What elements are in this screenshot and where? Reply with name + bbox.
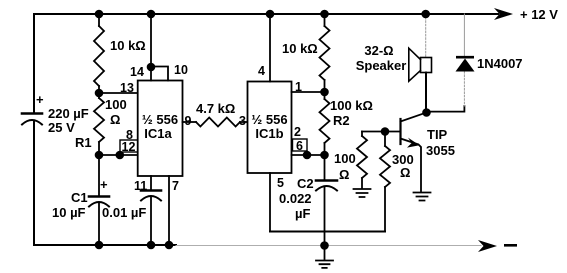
wire collector to diode [427,106,465,112]
wire pin 11 [150,176,152,190]
svg-text:+: + [100,177,108,192]
svg-text:+: + [36,92,44,107]
svg-text:11: 11 [134,179,147,193]
svg-text:10 kΩ: 10 kΩ [110,38,146,53]
resistor 300 ohm [384,132,386,147]
svg-text:10: 10 [174,63,188,77]
svg-text:TIP: TIP [427,127,448,142]
arrow negative rail [478,240,497,252]
svg-text:14: 14 [130,65,144,79]
svg-text:½ 556: ½ 556 [142,112,178,127]
svg-text:½ 556: ½ 556 [251,112,287,127]
svg-text:25 V: 25 V [48,120,75,135]
wire output bus y231 [270,231,385,233]
svg-text:12: 12 [122,140,136,154]
svg-text:13: 13 [120,81,134,95]
resistor 100 ohm (base) [361,132,363,137]
svg-text:7: 7 [172,179,179,193]
svg-text:6: 6 [296,139,303,153]
box pin 6 [293,139,308,151]
svg-text:100: 100 [334,151,356,166]
ground (below bottom rail) [316,261,333,268]
wire pin 13 [99,92,138,94]
resistor R1 100 ohm [94,98,104,142]
wire top +12V rail [34,13,498,15]
wire pin 2/6 [292,154,325,156]
wire pin13 node to resistor [98,86,100,93]
svg-text:IC1a: IC1a [144,126,172,141]
wire left vertical rail [33,14,35,245]
svg-text:Speaker: Speaker [356,58,407,73]
svg-text:Ω: Ω [339,167,349,182]
op-amp/timer IC1b (1/2 556) [248,82,292,174]
svg-text:9: 9 [185,114,192,128]
wire speaker to collector [425,73,427,113]
wire bottom rail (black part) [34,244,176,246]
op-amp/timer IC1a (1/2 556) [138,81,183,177]
wire node to C1 [98,155,100,196]
resistor R2 100 k ohm [324,92,326,99]
svg-text:220 µF: 220 µF [48,106,89,121]
svg-text:R2: R2 [333,113,350,128]
svg-text:1N4007: 1N4007 [477,56,523,71]
ground (below 100 ohm) [354,189,371,197]
capacitor 220uF 25V [22,112,42,115]
transistor Q1 TIP3055 [399,119,401,144]
wire pin 4 [269,14,271,82]
resistor 4.7 k ohm [183,121,197,123]
wire speaker top (faint) [425,14,427,58]
arrow +12V supply [494,8,513,20]
wire pin 14 [150,14,152,81]
wire pin 10 jumper [151,67,168,81]
svg-text:32-Ω: 32-Ω [364,43,393,58]
capacitor 0.01uF [141,189,161,192]
wire pin 5 [269,173,271,232]
svg-text:Ω: Ω [400,165,410,180]
svg-text:100 kΩ: 100 kΩ [330,98,373,113]
wire diode bottom (faint) [463,72,465,107]
svg-text:1: 1 [295,80,302,94]
svg-text:4: 4 [258,64,265,78]
wire diode top (faint) [463,14,465,56]
label minus [504,244,517,247]
capacitor C1 10uF [89,195,109,198]
box pin 12 [120,140,138,152]
speaker 32 ohm [421,58,432,73]
wire node to C2 [324,155,326,180]
resistor 10 k ohm (right) [324,14,326,26]
svg-text:2: 2 [294,125,301,139]
svg-text:3055: 3055 [426,143,455,158]
wire base network [362,131,401,133]
capacitor C2 0.022uF [316,179,337,182]
svg-text:µF: µF [295,206,310,221]
wire bottom rail (faint part) [176,245,481,247]
svg-text:100: 100 [105,97,127,112]
wire pin 7 [168,176,170,245]
svg-text:5: 5 [277,176,284,190]
emitter arrowhead [407,138,420,148]
resistor 10 k ohm (left) [94,26,104,86]
diode D1 1N4007 [456,56,474,59]
svg-text:IC1b: IC1b [255,126,283,141]
svg-text:3: 3 [239,114,246,128]
svg-text:Ω: Ω [110,112,120,127]
svg-text:0.022: 0.022 [279,191,312,206]
svg-text:+ 12 V: + 12 V [520,7,558,22]
ground (emitter) [414,193,431,201]
node dots [95,10,431,250]
svg-text:R1: R1 [75,135,92,150]
svg-text:10 µF: 10 µF [52,205,86,220]
svg-text:4.7 kΩ: 4.7 kΩ [196,101,235,116]
svg-text:10 kΩ: 10 kΩ [282,41,318,56]
wire pin 1 [292,91,325,93]
svg-text:C1: C1 [71,190,88,205]
svg-text:C2: C2 [297,176,314,191]
wire pin 8/12 [99,154,138,156]
svg-text:0.01 µF: 0.01 µF [102,205,146,220]
